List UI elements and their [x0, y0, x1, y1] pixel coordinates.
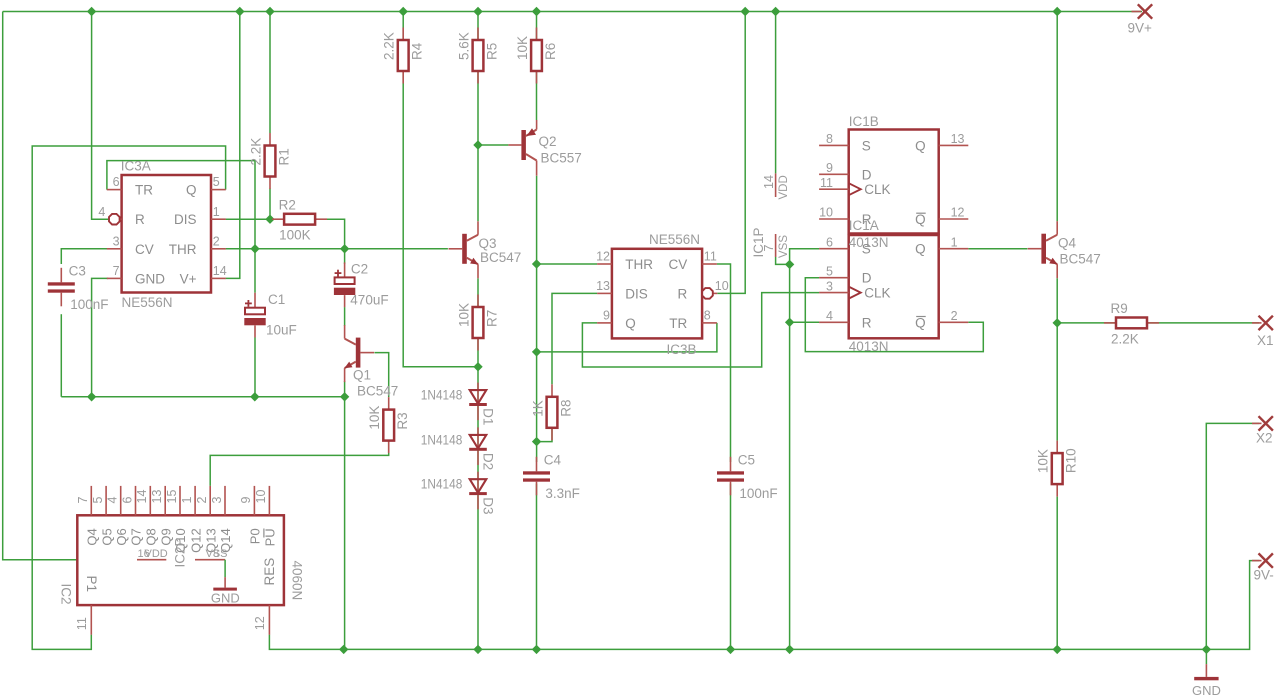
svg-text:10: 10: [254, 490, 268, 504]
diode D1 1N4148: [421, 383, 496, 426]
junction bottom bus C4: [533, 645, 541, 653]
power pins IC1P VDD/VSS: [751, 173, 790, 258]
svg-text:10K: 10K: [367, 406, 382, 430]
svg-text:8: 8: [704, 309, 711, 323]
svg-text:14: 14: [213, 264, 227, 278]
svg-text:CV: CV: [669, 257, 688, 272]
junction C4 line IC3B TR: [533, 348, 541, 356]
svg-text:1N4148: 1N4148: [421, 388, 463, 403]
svg-text:6: 6: [120, 497, 134, 504]
svg-text:Q6: Q6: [114, 528, 129, 545]
svg-text:S: S: [862, 138, 871, 153]
svg-text:12: 12: [596, 250, 610, 264]
svg-text:1: 1: [951, 235, 958, 249]
svg-text:3: 3: [113, 234, 120, 248]
svg-text:10K: 10K: [515, 36, 530, 60]
junction Q2 collector IC3B THR: [533, 260, 541, 268]
svg-text:R1: R1: [277, 148, 292, 165]
junction Q4 emitter R9 R10: [1053, 319, 1061, 327]
svg-text:1N4148: 1N4148: [421, 432, 463, 447]
node 9V- connector: [1252, 553, 1274, 582]
svg-text:11: 11: [704, 250, 717, 264]
svg-text:100nF: 100nF: [739, 486, 777, 501]
wire IC3B pin10 R to top bus: [717, 12, 745, 294]
svg-text:3: 3: [826, 279, 833, 293]
svg-text:NE556N: NE556N: [122, 295, 173, 310]
wire R4 to D1 node: [403, 71, 478, 367]
svg-text:R8: R8: [559, 400, 574, 417]
junction top bus / R4: [399, 8, 407, 16]
wire C1 to mid gnd bus: [254, 338, 256, 397]
junction top bus / R1: [266, 8, 274, 16]
wire bus to R6: [536, 12, 538, 41]
junction mid bus C1: [251, 393, 259, 401]
diode D3 1N4148: [421, 472, 496, 515]
svg-text:GND: GND: [135, 271, 165, 286]
wire bus to IC3A pin4 R: [92, 12, 109, 220]
counter IC2 4060N: [59, 486, 305, 635]
wire Q1 base to R3: [375, 353, 389, 397]
node X1 connector: [1252, 316, 1274, 348]
svg-text:2: 2: [951, 309, 958, 323]
svg-text:X2: X2: [1256, 431, 1273, 446]
svg-text:VSS: VSS: [778, 235, 790, 258]
wire Q2 base: [478, 144, 508, 146]
svg-text:10K: 10K: [1036, 449, 1051, 473]
svg-text:4060N: 4060N: [289, 561, 304, 601]
svg-text:470uF: 470uF: [350, 292, 388, 307]
svg-text:R10: R10: [1064, 448, 1079, 473]
svg-text:Q: Q: [915, 242, 926, 257]
wire bus to R1: [269, 12, 271, 134]
svg-text:D3: D3: [481, 497, 496, 514]
svg-text:P1: P1: [84, 576, 99, 593]
svg-text:9: 9: [826, 161, 833, 175]
resistor R10 10K: [1036, 441, 1079, 497]
wire R9 node to R10: [1056, 323, 1058, 441]
svg-text:D1: D1: [481, 408, 496, 425]
resistor R1 2.2K: [249, 133, 292, 189]
svg-text:C4: C4: [544, 452, 562, 467]
svg-text:CV: CV: [135, 242, 154, 257]
wire bus to R4: [402, 12, 404, 41]
capacitor C2 470uF: [334, 262, 389, 308]
capacitor C4 3.3nF: [523, 452, 580, 501]
node 9V+ connector: [1128, 4, 1153, 35]
svg-text:VDD: VDD: [145, 548, 168, 560]
transistor Q1 BC547: [344, 325, 398, 398]
wire IC3B pin8 TR to C4 node: [537, 323, 717, 352]
svg-text:R6: R6: [543, 43, 558, 60]
ground IC2 VSS: [211, 560, 240, 606]
svg-text:R3: R3: [395, 412, 410, 429]
wire top bus to IC1P VDD: [775, 12, 777, 174]
wire IC3B pin9 Q to IC1A CLK: [582, 293, 819, 367]
resistor R7 10K: [457, 295, 500, 351]
svg-text:CLK: CLK: [864, 182, 890, 197]
resistor R5 5.6K: [457, 28, 500, 84]
junction top bus / IC3B R line: [741, 8, 749, 16]
wire IC1A pin4 R: [790, 321, 820, 323]
svg-text:THR: THR: [625, 257, 653, 272]
svg-text:Q1: Q1: [353, 368, 371, 383]
svg-text:R2: R2: [279, 197, 296, 212]
op-amp IC3A NE556N timer section A: [98, 158, 226, 309]
svg-text:3.3nF: 3.3nF: [545, 486, 580, 501]
wire DIS to R2: [226, 218, 272, 220]
wire D node down diodes to bottom bus: [477, 367, 479, 650]
svg-text:D: D: [862, 167, 872, 182]
wire IC3A pin6 TR bracket to THR node: [107, 161, 255, 249]
svg-text:3: 3: [210, 497, 224, 504]
svg-text:12: 12: [951, 206, 965, 220]
junction bottom bus GND X2: [1202, 645, 1210, 653]
svg-text:Q8: Q8: [144, 528, 159, 545]
resistor R6 10K: [515, 28, 558, 84]
junction VSS rail R: [786, 318, 794, 326]
svg-text:C2: C2: [351, 262, 368, 277]
junction top bus / VDD line: [772, 8, 780, 16]
wire IC3B pin12 THR: [537, 263, 598, 265]
wire IC3A pin7 GND down: [92, 278, 109, 396]
svg-text:BC547: BC547: [1060, 252, 1101, 267]
svg-text:13: 13: [150, 490, 164, 504]
svg-text:C1: C1: [268, 292, 285, 307]
svg-text:GND: GND: [211, 591, 240, 606]
wire C2 top: [344, 249, 346, 264]
flip-flop IC1B 4013N: [819, 114, 968, 234]
svg-text:Q7: Q7: [129, 528, 144, 545]
svg-text:VDD: VDD: [778, 175, 790, 199]
transistor Q3 BC547: [449, 221, 522, 278]
wire IC3A pin5 Q to IC2 pin11: [32, 146, 225, 649]
svg-text:9V+: 9V+: [1128, 21, 1153, 36]
wire mid gnd bus to bottom bus: [344, 397, 346, 650]
svg-text:9: 9: [603, 309, 610, 323]
svg-text:5: 5: [826, 264, 833, 278]
svg-text:NE556N: NE556N: [649, 232, 700, 247]
svg-text:IC2: IC2: [59, 584, 74, 605]
wire THR node to C1: [254, 249, 256, 293]
wire IC3B pin11 CV to C5: [717, 264, 731, 462]
node X2 connector: [1252, 416, 1273, 445]
wire Q3 emitter to R7: [477, 278, 479, 307]
capacitor C3 100nF: [48, 263, 109, 312]
capacitor C5 100nF: [717, 452, 778, 501]
svg-text:1N4148: 1N4148: [421, 477, 463, 492]
svg-text:DIS: DIS: [174, 212, 197, 227]
svg-text:15: 15: [165, 490, 179, 504]
svg-text:100nF: 100nF: [70, 297, 108, 312]
wire C2 to Q1 collector: [344, 307, 346, 326]
junction top bus / R5: [474, 8, 482, 16]
svg-text:4: 4: [98, 205, 105, 219]
svg-text:V+: V+: [180, 271, 197, 286]
wire C5 to bottom bus: [730, 484, 732, 650]
svg-text:1K: 1K: [531, 400, 546, 417]
wire IC2 pin12 to bottom bus: [269, 635, 345, 650]
svg-text:C3: C3: [69, 263, 86, 278]
svg-text:D2: D2: [481, 453, 496, 470]
svg-text:BC547: BC547: [357, 384, 398, 399]
svg-text:R: R: [862, 315, 872, 330]
junction top bus / V+ line: [236, 8, 244, 16]
junction bottom bus R10: [1053, 645, 1061, 653]
svg-text:GND: GND: [1192, 683, 1221, 698]
svg-text:R: R: [678, 286, 688, 301]
junction top bus / pin4 line: [88, 8, 96, 16]
svg-text:9V-: 9V-: [1254, 568, 1274, 583]
svg-text:IC3A: IC3A: [121, 158, 151, 173]
svg-text:5.6K: 5.6K: [457, 32, 472, 60]
junction R5 Q2 base: [474, 141, 482, 149]
junction bottom bus C5: [727, 645, 735, 653]
svg-text:Q: Q: [915, 315, 926, 330]
resistor R2 100K: [272, 197, 327, 242]
svg-text:13: 13: [596, 279, 610, 293]
svg-text:Q3: Q3: [479, 236, 497, 251]
svg-text:5: 5: [213, 175, 220, 189]
wire bus to R5: [477, 12, 479, 41]
op-amp IC3B NE556N timer section B: [596, 232, 729, 357]
svg-text:DIS: DIS: [625, 286, 648, 301]
junction THR C2 R2: [341, 245, 349, 253]
svg-text:2: 2: [195, 497, 209, 504]
svg-text:10: 10: [715, 279, 729, 293]
junction VSS rail S: [786, 260, 794, 268]
resistor R4 2.2K: [382, 28, 425, 84]
svg-text:Q12: Q12: [188, 528, 203, 553]
svg-text:2: 2: [213, 234, 220, 248]
svg-text:11: 11: [75, 617, 89, 630]
resistor R3 10K: [367, 397, 410, 453]
svg-text:Q: Q: [915, 138, 926, 153]
svg-text:BC547: BC547: [480, 250, 521, 265]
junction THR C1: [251, 245, 259, 253]
junction C4 line R8: [533, 438, 541, 446]
svg-text:S: S: [862, 242, 871, 257]
svg-text:BC557: BC557: [541, 151, 582, 166]
wire R3 to IC2 pin2: [210, 441, 389, 486]
svg-text:IC1B: IC1B: [849, 114, 879, 129]
svg-text:Q: Q: [186, 183, 197, 198]
wire R7 to D1 node: [477, 338, 479, 367]
svg-text:14: 14: [762, 175, 776, 189]
resistor R8 1K: [531, 384, 574, 440]
svg-text:5: 5: [91, 497, 105, 504]
svg-text:4: 4: [106, 497, 120, 504]
junction mid bus Q1 emitter: [341, 393, 349, 401]
wire R9 to X1: [1057, 322, 1259, 324]
svg-text:100K: 100K: [279, 228, 311, 243]
svg-text:Q2: Q2: [539, 134, 557, 149]
svg-text:THR: THR: [169, 242, 197, 257]
wire R1 to DIS node: [269, 189, 271, 220]
transistor Q4 BC547: [1028, 221, 1101, 278]
svg-text:IC1P: IC1P: [751, 227, 766, 257]
svg-text:10: 10: [819, 206, 833, 220]
wire bottom bus to GND: [1205, 649, 1207, 664]
svg-text:Q4: Q4: [1058, 236, 1077, 251]
wire IC1A pin1 Q to Q4 base: [968, 248, 1027, 250]
svg-text:P0: P0: [248, 528, 263, 544]
wire Q4 emitter to R9 node: [1056, 278, 1058, 323]
svg-text:8: 8: [826, 132, 833, 146]
junction bottom bus VSS rail: [786, 645, 794, 653]
svg-text:IC3B: IC3B: [666, 342, 696, 357]
svg-text:6: 6: [113, 175, 120, 189]
junction top bus / Q4 collector: [1053, 8, 1061, 16]
svg-text:13: 13: [951, 132, 965, 146]
svg-text:4013N: 4013N: [849, 339, 889, 354]
svg-text:D: D: [862, 271, 872, 286]
junction bottom bus IC2 pin12: [340, 645, 348, 653]
svg-text:R5: R5: [485, 43, 500, 60]
svg-text:Q5: Q5: [99, 528, 114, 545]
svg-text:1: 1: [213, 205, 220, 219]
flip-flop IC1A 4013N: [819, 218, 968, 354]
svg-text:R9: R9: [1111, 301, 1128, 316]
junction DIS R1 R2: [266, 215, 274, 223]
svg-text:X1: X1: [1257, 333, 1274, 348]
wire R2 to THR node: [327, 219, 345, 249]
transistor Q2 BC557: [508, 120, 581, 176]
wire X2 to bottom bus: [1206, 423, 1259, 649]
wire R10 to bottom bus: [1056, 497, 1058, 650]
svg-text:7: 7: [76, 497, 90, 504]
svg-text:RES: RES: [262, 558, 277, 586]
wire Q1 emitter to mid bus: [344, 381, 346, 397]
svg-text:7: 7: [113, 264, 120, 278]
wire IC3A pin3 CV to C3: [61, 249, 108, 264]
svg-text:TR: TR: [135, 183, 153, 198]
junction mid bus GND pin7: [88, 393, 96, 401]
svg-text:6: 6: [826, 235, 833, 249]
wire Q2 collector down to C4 and bus: [536, 176, 538, 462]
resistor R9 2.2K: [1104, 301, 1159, 346]
svg-text:IC2P: IC2P: [173, 537, 188, 567]
diode D2 1N4148: [421, 427, 496, 470]
wire THR line to Q3 base: [226, 248, 448, 250]
svg-text:9: 9: [239, 497, 253, 504]
junction top bus / R6: [533, 8, 541, 16]
svg-text:14: 14: [135, 490, 149, 504]
wire left rail to IC2 VDD: [3, 12, 137, 560]
wire IC1P VSS to S/R rail: [776, 257, 790, 264]
svg-text:R4: R4: [410, 42, 425, 60]
svg-text:Q4: Q4: [85, 528, 100, 545]
svg-text:Q: Q: [625, 316, 636, 331]
wire IC1A pin6 S rail: [790, 249, 820, 650]
svg-text:10uF: 10uF: [266, 323, 297, 338]
svg-text:11: 11: [820, 176, 833, 190]
svg-text:R7: R7: [485, 310, 500, 327]
wire bus to IC3A V+ pin14: [226, 12, 240, 279]
svg-text:PU: PU: [263, 528, 278, 546]
svg-text:Q9: Q9: [158, 528, 173, 545]
wire R5 to Q2 base node to Q3 collector: [477, 71, 479, 221]
svg-text:CLK: CLK: [864, 286, 890, 301]
junction bottom bus D3: [474, 645, 482, 653]
svg-text:1: 1: [180, 497, 194, 504]
svg-text:2.2K: 2.2K: [382, 32, 397, 60]
svg-text:Q: Q: [915, 212, 926, 227]
svg-text:R: R: [135, 212, 145, 227]
svg-text:10K: 10K: [457, 303, 472, 327]
svg-text:8: 8: [213, 548, 219, 560]
junction R4 R7 D1: [474, 363, 482, 371]
svg-text:12: 12: [253, 616, 267, 630]
wire IC1A pin2 Qbar to pin5 D: [805, 278, 983, 352]
wire C4 to bottom bus: [536, 484, 538, 650]
wire top bus to Q4 collector: [1056, 12, 1058, 222]
wire mid gnd bus: [61, 396, 347, 398]
svg-text:C5: C5: [738, 452, 755, 467]
wire C3 to mid gnd bus: [60, 314, 62, 397]
wire 9V+ top bus: [3, 11, 1142, 13]
svg-text:IC1A: IC1A: [849, 218, 879, 233]
svg-text:2.2K: 2.2K: [249, 138, 264, 166]
wire R8 bottom to C4 line: [537, 428, 552, 442]
wire R6 to Q2 emitter: [536, 71, 538, 120]
capacitor C1 10uF: [244, 292, 296, 338]
svg-text:2.2K: 2.2K: [1111, 331, 1139, 346]
wire IC3B pin13 DIS to R8: [552, 293, 597, 384]
svg-text:TR: TR: [669, 316, 687, 331]
svg-text:4: 4: [826, 309, 833, 323]
wire bottom bus: [344, 561, 1259, 650]
ground GND bottom: [1192, 664, 1221, 698]
